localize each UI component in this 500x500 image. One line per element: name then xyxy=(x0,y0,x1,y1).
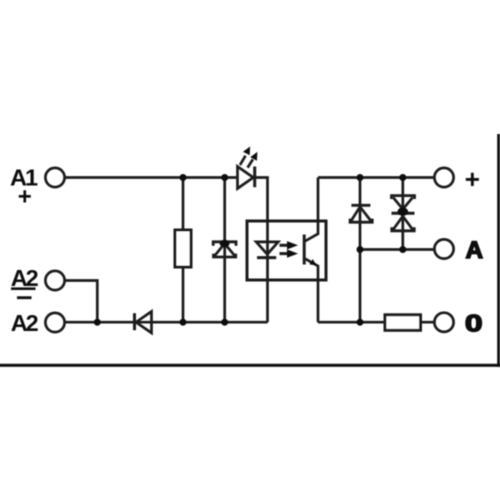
node bottom rail Z1 junction xyxy=(221,319,228,326)
wire bottom-right rail xyxy=(318,321,434,324)
node top rail R1 junction xyxy=(180,174,187,181)
label minus (A2 polarity) xyxy=(17,296,32,299)
frame bottom border xyxy=(0,364,500,367)
resistor R2 (output, horizontal) xyxy=(385,315,421,331)
diode D3 (freewheel, vertical at x=360) xyxy=(350,205,372,222)
svg-text:A2: A2 xyxy=(11,310,39,336)
optocoupler LED xyxy=(256,242,278,258)
optocoupler light arrow 1 xyxy=(280,241,299,249)
underline of A2 upper xyxy=(11,287,36,290)
suppressor diode D4 (bidirectional, x=402.5) xyxy=(392,196,415,231)
terminal A2 lower xyxy=(45,313,64,332)
node top-right rail D3 junction xyxy=(357,174,364,181)
resistor R1 (input, vertical) xyxy=(175,230,191,267)
wire suppressor branch xyxy=(401,178,404,250)
node bottom-right rail junction xyxy=(357,319,364,326)
terminal A output xyxy=(434,239,453,258)
optocoupler light arrow 2 xyxy=(280,249,299,257)
terminal A1 xyxy=(45,168,64,187)
node middle rail D4 junction xyxy=(399,246,406,253)
wire freewheel diode branch xyxy=(359,178,362,323)
wire top-right rail xyxy=(318,176,434,179)
svg-text:A: A xyxy=(466,237,483,264)
phototransistor Q1 collector wire xyxy=(305,178,318,242)
diode D1 (series protection on A2) xyxy=(135,312,152,333)
optocoupler U1 box xyxy=(247,221,326,280)
terminal + output xyxy=(434,168,453,187)
node top-right rail D4 junction xyxy=(399,174,406,181)
wire A1 top rail xyxy=(65,176,238,179)
svg-text:+: + xyxy=(18,184,32,211)
wire LED to optocoupler anode xyxy=(256,178,268,323)
phototransistor Q1 emitter wire xyxy=(305,259,318,322)
LED D2 emission arrow 1 xyxy=(240,147,250,166)
LED D2 emission arrow 2 xyxy=(248,152,258,168)
svg-text:+: + xyxy=(465,164,480,194)
phototransistor Q1 emitter arrowhead xyxy=(309,259,316,265)
wire bottom-left rail xyxy=(65,321,268,324)
frame right border xyxy=(497,134,500,367)
node bottom rail R1 junction xyxy=(180,319,187,326)
LED D2 (indicator) xyxy=(238,167,255,189)
node A2 jumper junction xyxy=(94,319,101,326)
wire input zener branch xyxy=(223,178,226,323)
terminal A2 upper xyxy=(45,271,64,290)
wire A2 upper jumper xyxy=(65,281,98,323)
phototransistor Q1 base bar xyxy=(303,235,306,265)
node top rail Z1 junction xyxy=(221,174,228,181)
terminal 0 output xyxy=(434,313,453,332)
suppressor zener Z1 (input, vertical at x=225) xyxy=(213,240,236,257)
node middle rail D3 junction xyxy=(357,246,364,253)
svg-text:0: 0 xyxy=(465,310,483,338)
svg-text:A2: A2 xyxy=(11,265,39,291)
wire middle rail to A xyxy=(360,248,434,251)
wire input resistor branch xyxy=(182,178,185,323)
